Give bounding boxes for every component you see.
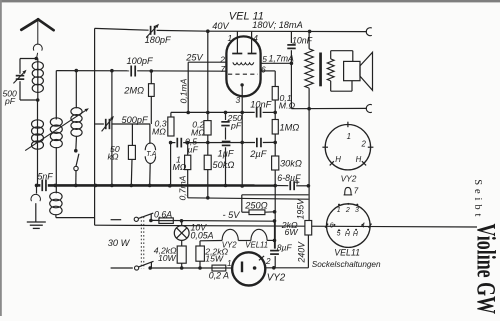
svg-text:100pF: 100pF (127, 56, 154, 66)
svg-text:195V: 195V (296, 198, 306, 220)
svg-text:0,6A: 0,6A (154, 209, 172, 219)
svg-text:180pF: 180pF (145, 35, 172, 45)
svg-text:10nF: 10nF (250, 99, 272, 109)
svg-text:5: 5 (337, 231, 341, 238)
svg-text:1,7mA: 1,7mA (269, 53, 295, 63)
svg-text:250Ω: 250Ω (244, 201, 267, 211)
svg-text:0,05A: 0,05A (191, 230, 214, 240)
svg-text:4: 4 (361, 223, 365, 230)
svg-text:VEL11: VEL11 (245, 241, 268, 250)
svg-text:0,2 A: 0,2 A (209, 271, 229, 281)
svg-text:VY2: VY2 (341, 174, 357, 184)
svg-text:3: 3 (355, 207, 359, 214)
svg-text:pF: pF (4, 96, 16, 106)
svg-text:pF: pF (230, 121, 242, 131)
svg-text:4: 4 (253, 33, 258, 43)
svg-text:VY2: VY2 (267, 273, 286, 284)
svg-text:50kΩ: 50kΩ (213, 160, 235, 170)
svg-text:5nF: 5nF (38, 171, 54, 181)
svg-text:1MΩ: 1MΩ (280, 122, 300, 132)
svg-text:1: 1 (228, 33, 233, 43)
svg-text:30 W: 30 W (108, 238, 131, 248)
svg-text:VY2: VY2 (222, 241, 237, 250)
svg-text:500pF: 500pF (122, 115, 149, 125)
svg-text:6: 6 (261, 64, 266, 74)
svg-text:2µF: 2µF (249, 149, 267, 159)
svg-text:6: 6 (330, 223, 334, 230)
svg-text:7: 7 (354, 187, 359, 196)
svg-text:Violine GW: Violine GW (471, 224, 500, 315)
svg-text:8µF: 8µF (277, 242, 293, 252)
svg-text:10W: 10W (158, 253, 177, 263)
svg-text:- 5V: - 5V (223, 210, 241, 220)
svg-text:kΩ: kΩ (108, 152, 119, 162)
svg-text:2MΩ: 2MΩ (123, 86, 144, 96)
svg-text:15W: 15W (205, 254, 224, 264)
svg-text:2: 2 (219, 55, 225, 65)
svg-text:VEL11: VEL11 (334, 247, 360, 257)
svg-text:0,1mA: 0,1mA (179, 78, 189, 103)
svg-text:Sockelschaltungen: Sockelschaltungen (312, 260, 381, 269)
svg-text:30kΩ: 30kΩ (280, 158, 302, 168)
svg-text:1: 1 (347, 132, 351, 141)
svg-text:7: 7 (221, 64, 226, 74)
svg-text:Seibt: Seibt (472, 179, 483, 220)
svg-text:1: 1 (337, 207, 341, 214)
svg-text:5: 5 (262, 54, 267, 64)
svg-text:25V: 25V (185, 53, 203, 63)
svg-text:MΩ: MΩ (152, 127, 166, 137)
svg-text:2: 2 (345, 207, 350, 214)
svg-text:2: 2 (361, 140, 367, 149)
svg-text:µF: µF (188, 145, 199, 155)
svg-text:M.Ω: M.Ω (279, 101, 296, 111)
svg-text:1: 1 (227, 259, 232, 268)
svg-text:1µF: 1µF (218, 148, 235, 158)
svg-text:3: 3 (236, 95, 241, 105)
svg-text:180V; 18mA: 180V; 18mA (252, 20, 302, 30)
svg-text:40V: 40V (212, 21, 229, 31)
svg-text:240V: 240V (296, 241, 306, 264)
svg-text:2: 2 (265, 257, 271, 266)
svg-text:T.A: T.A (146, 151, 157, 158)
svg-text:6W: 6W (285, 227, 299, 237)
svg-text:MΩ: MΩ (173, 162, 187, 172)
svg-text:6-8µF: 6-8µF (277, 173, 301, 183)
svg-text:H: H (335, 155, 341, 164)
svg-text:0,7mA: 0,7mA (177, 175, 187, 200)
svg-text:H: H (356, 155, 362, 164)
svg-text:10nF: 10nF (292, 35, 313, 45)
